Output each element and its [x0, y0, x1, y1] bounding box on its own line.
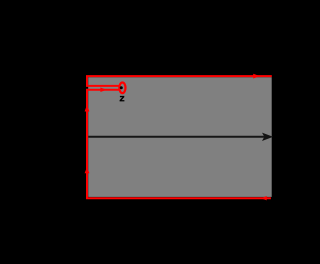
lower arrowhead on left edge (pointing up): [85, 167, 90, 173]
z axis arrowhead: [263, 134, 272, 140]
z axis line: [88, 136, 266, 138]
arrowhead on top edge (pointing right): [253, 74, 260, 79]
small contour circle around point z: [119, 83, 125, 94]
arrowhead on keyhole lower line (pointing right): [100, 87, 106, 92]
label z: [120, 96, 125, 102]
contour: keyhole upper line, left edge upper part, top edge: [87, 76, 272, 86]
gray half-plane region: [88, 77, 272, 197]
upper arrowhead on left edge (pointing up): [85, 105, 90, 112]
contour: bottom edge, left edge lower part, keyhole lower line: [87, 90, 271, 198]
arrowhead on bottom edge (pointing left): [261, 196, 267, 200]
point z dot: [120, 86, 123, 89]
